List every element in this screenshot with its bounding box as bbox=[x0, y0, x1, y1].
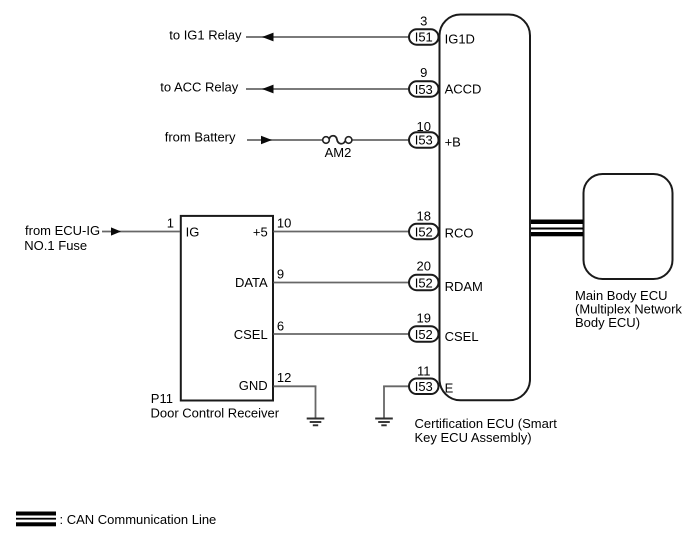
svg-text:20: 20 bbox=[417, 258, 431, 273]
svg-text:GND: GND bbox=[239, 378, 268, 393]
svg-text:IG: IG bbox=[186, 225, 200, 240]
svg-text:ACCD: ACCD bbox=[445, 81, 482, 96]
svg-text:E: E bbox=[445, 381, 454, 396]
svg-text:AM2: AM2 bbox=[325, 145, 352, 160]
svg-text:I52: I52 bbox=[415, 225, 433, 240]
svg-text:to IG1 Relay: to IG1 Relay bbox=[169, 27, 242, 42]
svg-text:19: 19 bbox=[417, 310, 431, 325]
svg-text:Key ECU Assembly): Key ECU Assembly) bbox=[415, 430, 532, 445]
svg-text:9: 9 bbox=[277, 266, 284, 281]
svg-text:I52: I52 bbox=[415, 275, 433, 290]
svg-text:1: 1 bbox=[167, 216, 174, 231]
svg-text:IG1D: IG1D bbox=[445, 31, 475, 46]
svg-text:RCO: RCO bbox=[445, 226, 474, 241]
svg-text:18: 18 bbox=[417, 209, 431, 224]
svg-text:from ECU-IG: from ECU-IG bbox=[25, 223, 100, 238]
svg-text:+5: +5 bbox=[253, 225, 268, 240]
svg-text:3: 3 bbox=[420, 13, 427, 28]
svg-text:from Battery: from Battery bbox=[165, 129, 236, 144]
svg-text:10: 10 bbox=[277, 216, 291, 231]
svg-text:Door Control Receiver: Door Control Receiver bbox=[151, 406, 280, 421]
svg-text:11: 11 bbox=[417, 364, 431, 379]
svg-text:NO.1 Fuse: NO.1 Fuse bbox=[24, 238, 87, 253]
svg-text:P11: P11 bbox=[151, 391, 173, 406]
svg-text:I53: I53 bbox=[415, 133, 433, 148]
svg-text:9: 9 bbox=[420, 65, 427, 80]
svg-text:: CAN Communication Line: : CAN Communication Line bbox=[60, 512, 217, 527]
svg-text:CSEL: CSEL bbox=[234, 327, 268, 342]
svg-text:+B: +B bbox=[445, 135, 461, 150]
svg-text:12: 12 bbox=[277, 370, 291, 385]
svg-text:CSEL: CSEL bbox=[445, 329, 479, 344]
svg-text:Certification ECU (Smart: Certification ECU (Smart bbox=[415, 416, 558, 431]
svg-text:to ACC Relay: to ACC Relay bbox=[160, 79, 239, 94]
svg-text:I53: I53 bbox=[415, 82, 433, 97]
svg-text:6: 6 bbox=[277, 318, 284, 333]
svg-text:Body ECU): Body ECU) bbox=[575, 315, 640, 330]
svg-text:10: 10 bbox=[417, 119, 431, 134]
svg-text:DATA: DATA bbox=[235, 275, 268, 290]
svg-text:I52: I52 bbox=[415, 327, 433, 342]
svg-text:RDAM: RDAM bbox=[445, 279, 483, 294]
svg-text:I53: I53 bbox=[415, 379, 433, 394]
svg-text:I51: I51 bbox=[415, 30, 433, 45]
